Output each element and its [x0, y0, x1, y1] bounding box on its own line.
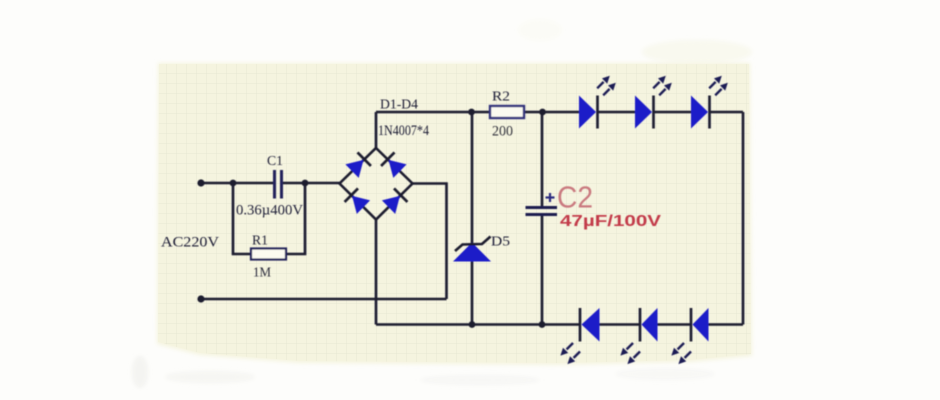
svg-text:R2: R2 — [492, 90, 510, 105]
wire: right side vertical rail — [742, 112, 745, 325]
node: D5 bottom junction — [469, 321, 476, 328]
diode D1 (bridge top-left) — [345, 152, 371, 178]
wire: C1 right plate to right node — [282, 182, 305, 185]
cream grid paper region — [157, 63, 752, 365]
svg-text:D5: D5 — [491, 235, 510, 250]
svg-text:1M: 1M — [253, 266, 272, 281]
diode D2 (bridge top-right) — [381, 152, 407, 178]
diode D4 (bridge bottom-right) — [382, 188, 408, 214]
wire: bridge top vertex up to positive rail — [375, 112, 378, 148]
wire: AC bottom terminal to bridge right branch — [201, 298, 447, 301]
wire: LED6 to LED5 — [658, 323, 692, 326]
svg-text:R1: R1 — [252, 234, 268, 249]
wire: positive rail from bridge to R2 left junction — [376, 111, 490, 114]
wire: D5 branch vertical — [471, 112, 474, 325]
node: bridge+/R2/D5 junction — [468, 109, 475, 116]
wire: R1 branch right vertical — [286, 183, 305, 254]
LED3 (top string) — [691, 76, 728, 129]
wire: bottom-right corner to LED6 — [709, 323, 744, 326]
wire: LED4 to bridge bottom return rail — [376, 323, 580, 326]
node: AC220V bottom terminal — [197, 295, 204, 302]
LED6 (bottom string) — [671, 308, 708, 364]
wire: C2 branch vertical bottom — [541, 215, 544, 325]
wire: bridge diamond outline — [340, 148, 413, 220]
node: AC220V top terminal — [197, 179, 204, 186]
wire: LED5 to LED4 — [600, 323, 641, 326]
wire: bridge right vertex down to AC bottom wire — [413, 184, 447, 300]
C2 plus polarity mark — [546, 193, 555, 202]
faint photo smudges — [132, 19, 752, 388]
wire: C2 branch vertical top — [541, 112, 544, 207]
wire: LED2 cathode to LED3 anode — [653, 111, 691, 114]
node: C1/R1 right junction — [302, 180, 309, 187]
svg-text:C1: C1 — [267, 154, 283, 169]
wire: C1 left node to C1 left plate — [233, 182, 273, 185]
wire: R2 right lead to C2 top junction — [524, 111, 542, 114]
wire: LED3 cathode to top-right corner — [710, 111, 744, 114]
wire: C1 right node to bridge left vertex — [305, 182, 340, 185]
resistor R1 — [251, 249, 286, 260]
wire: R1 branch left vertical — [233, 183, 251, 254]
node: C2 bottom junction — [539, 321, 546, 328]
wire: AC top terminal to C1 left node — [201, 182, 233, 185]
svg-text:200: 200 — [492, 124, 513, 140]
node: C1/R1 left junction — [230, 180, 237, 187]
LED2 (top string) — [635, 76, 672, 129]
svg-text:47µF/100V: 47µF/100V — [560, 213, 661, 230]
LED5 (bottom string) — [620, 308, 657, 364]
resistor R2 — [490, 106, 524, 118]
svg-text:AC220V: AC220V — [161, 235, 219, 251]
svg-text:0.36µ400V: 0.36µ400V — [236, 203, 303, 219]
LED1 (top string) — [579, 76, 616, 129]
LED4 (bottom string) — [560, 308, 599, 364]
wire: C2 top junction to LED1 anode — [542, 111, 579, 114]
grid lines — [158, 64, 751, 363]
node: R2/C2/LED junction — [539, 109, 546, 116]
wire: LED1 cathode to LED2 anode — [597, 111, 635, 114]
zener diode D5 — [453, 237, 491, 262]
capacitor C2 (electrolytic) — [526, 208, 558, 215]
diode D3 (bridge bottom-left) — [345, 188, 371, 214]
svg-text:D1-D4: D1-D4 — [380, 98, 418, 113]
svg-text:1N4007*4: 1N4007*4 — [378, 123, 430, 139]
wire: bridge bottom vertex down to return rail — [375, 220, 378, 325]
capacitor C1 — [275, 170, 282, 199]
svg-text:C2: C2 — [557, 180, 593, 215]
